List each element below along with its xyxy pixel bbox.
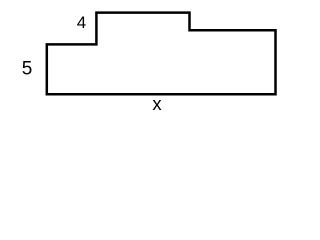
stepped polygon outline [47,13,276,95]
svg-text:5: 5 [22,59,33,80]
svg-text:4: 4 [77,13,86,32]
svg-text:x: x [152,93,162,114]
